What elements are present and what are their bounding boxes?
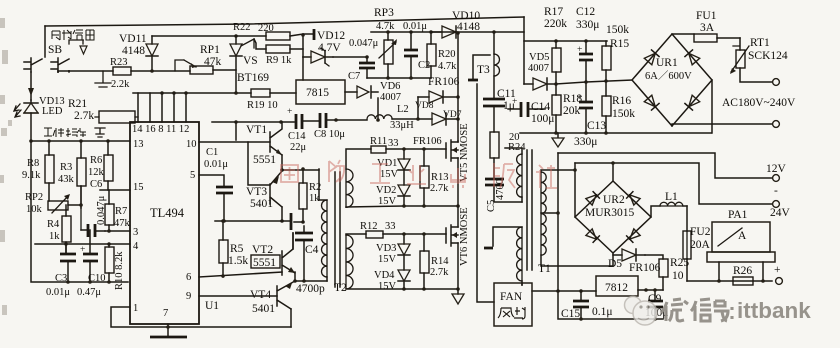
resistor R20: [427, 44, 436, 66]
transformer T2 primary: [319, 169, 327, 200]
label 风扇 fan: [498, 307, 525, 319]
svg-text:R21: R21: [68, 98, 87, 110]
svg-text:T3: T3: [477, 64, 490, 76]
svg-text:+: +: [577, 93, 582, 103]
wire UR1 right vertex down to rail: [711, 80, 713, 133]
svg-text:13: 13: [133, 139, 144, 150]
svg-text:R26: R26: [733, 265, 752, 277]
svg-text:10: 10: [672, 270, 684, 282]
red char 国: [281, 165, 298, 182]
transformer T1 secondary: [541, 172, 546, 255]
red char 版: [494, 163, 515, 188]
svg-text:12k: 12k: [88, 167, 105, 178]
resistor R10: [105, 247, 114, 273]
resistor R21 body: [99, 111, 135, 123]
zener VD2: [398, 196, 410, 206]
svg-text:L2: L2: [397, 104, 409, 115]
resistor R6: [104, 155, 113, 181]
svg-text:150k: 150k: [606, 24, 629, 36]
svg-text:R10 8.2k: R10 8.2k: [114, 251, 125, 290]
svg-text:R9 1k: R9 1k: [266, 55, 292, 66]
wire pin5/C1 to C4 tick: [215, 221, 303, 222]
wire VD10 cathode net: [456, 31, 524, 33]
wire y41 bus: [524, 40, 607, 42]
svg-text:R3: R3: [60, 162, 72, 173]
capacitor C9: [648, 301, 663, 307]
UR2 diode arm 2: [627, 192, 640, 205]
bridge UR2 diamond: [575, 181, 651, 253]
svg-text:5: 5: [190, 170, 195, 181]
ground at pin 7: [167, 324, 169, 337]
svg-text:FAN: FAN: [500, 291, 523, 303]
svg-text:5401: 5401: [252, 303, 275, 315]
wire: below pole2 down to R23 wire: [58, 71, 69, 72]
red char 社: [536, 165, 557, 188]
svg-text:VS: VS: [243, 55, 258, 67]
svg-text:R20: R20: [438, 49, 456, 60]
capacitor C8 10u: [320, 113, 326, 128]
svg-text:0.01μ: 0.01μ: [46, 287, 70, 298]
svg-text:15: 15: [133, 182, 144, 193]
T1 core: [527, 150, 532, 270]
svg-text:0.047μ: 0.047μ: [349, 38, 379, 49]
wire pin 1: [111, 307, 291, 327]
resistor R18: [552, 95, 561, 115]
inductor L2 33uH: [367, 115, 392, 119]
svg-text:4: 4: [133, 241, 139, 252]
svg-text:47k: 47k: [204, 56, 222, 68]
svg-text:C5: C5: [486, 200, 497, 212]
wire secondary rail column: [558, 153, 663, 319]
svg-text:33: 33: [388, 138, 399, 149]
capacitor C2: [404, 50, 418, 56]
T3 left terminal: [473, 55, 490, 80]
svg-text:TL494: TL494: [150, 206, 185, 220]
svg-text:15V: 15V: [378, 196, 397, 207]
bottom rail left: [31, 141, 128, 282]
svg-text:C13: C13: [587, 120, 606, 132]
svg-text:D5: D5: [608, 258, 622, 270]
svg-text:LED: LED: [42, 106, 63, 117]
wire RP3/C2 top: [371, 31, 457, 33]
resistor R23: [113, 67, 131, 75]
T2 secondary upper winding: [346, 169, 353, 207]
svg-text:7812: 7812: [605, 282, 628, 294]
svg-text:SB: SB: [48, 44, 62, 56]
svg-text:RP2: RP2: [25, 192, 43, 203]
svg-text:9: 9: [186, 291, 191, 302]
ground triangle VT6: [457, 289, 459, 294]
wire VT2 collector: [292, 233, 294, 249]
transistor VT4 5401: [277, 281, 295, 309]
regulator 7812: [596, 276, 638, 296]
svg-text:MUR3015: MUR3015: [585, 207, 634, 219]
svg-text:VD12: VD12: [317, 30, 345, 42]
UR1 diode arm 2: [685, 50, 700, 65]
resistor R19: [251, 89, 270, 97]
svg-text:330μ: 330μ: [574, 136, 597, 148]
wire R19 net: [133, 92, 296, 94]
resistor R24: [490, 132, 499, 158]
wire RP3/C2/R20 bottom rail: [367, 77, 431, 79]
wire: pole2 bottom to junction: [68, 70, 70, 72]
svg-text:4700: 4700: [495, 179, 506, 200]
svg-text:C14: C14: [531, 101, 550, 113]
svg-text:5551: 5551: [253, 257, 276, 269]
wire emitter tap to T2 primary bottom: [295, 280, 327, 282]
svg-text:0.47μ: 0.47μ: [77, 287, 101, 298]
svg-text:33: 33: [385, 221, 396, 232]
svg-text:20A: 20A: [690, 239, 711, 251]
UR2 diode arm 3: [586, 229, 599, 242]
capacitor C15: [573, 301, 589, 307]
svg-text:7815: 7815: [306, 87, 329, 99]
svg-text:2.7k: 2.7k: [430, 183, 449, 194]
capacitor C12: [579, 54, 593, 60]
svg-text:0.1μ: 0.1μ: [592, 306, 613, 318]
wire C14/C8 net: [212, 120, 367, 122]
svg-text:4148: 4148: [122, 45, 145, 57]
svg-text:5401: 5401: [250, 198, 273, 210]
svg-text:+: +: [287, 107, 292, 117]
wire pin13 net: [31, 140, 130, 142]
diode VD12 zener: [303, 51, 333, 63]
resistor R9: [266, 45, 290, 53]
wire R23 net: [58, 70, 236, 72]
wire T3 column: [493, 32, 495, 54]
diode VD8 FR106: [418, 91, 458, 103]
label 启动按钮 (start button): [52, 30, 94, 40]
ground triangle at rail: [557, 133, 559, 137]
svg-text:R13: R13: [431, 172, 449, 183]
svg-text:24V: 24V: [770, 207, 791, 219]
AC terminal 2: [773, 121, 780, 128]
red char 出: [451, 168, 465, 188]
switch actuator bracket with arrow: [69, 40, 83, 44]
svg-text:R25: R25: [670, 257, 689, 269]
zener VD4: [398, 281, 410, 289]
scanner edge smudges: [0, 18, 12, 315]
svg-text:100μ: 100μ: [531, 113, 554, 125]
svg-text:3: 3: [133, 227, 138, 238]
T2 secondary lower winding: [346, 235, 353, 289]
svg-text:1: 1: [133, 303, 138, 314]
diode D5 FR106: [613, 249, 645, 261]
wire T2 sec upper to R11: [346, 149, 371, 169]
diode VD5: [524, 78, 556, 90]
svg-text:330μ: 330μ: [576, 19, 599, 31]
svg-text:3A: 3A: [700, 22, 715, 34]
wire 7812 in: [532, 290, 596, 292]
svg-text:33μH: 33μH: [390, 120, 414, 131]
LED VD13: [24, 100, 38, 113]
wire pin3: [105, 230, 130, 232]
resistor R7: [105, 204, 114, 225]
regulator 7815: [296, 80, 345, 104]
svg-text:47k: 47k: [114, 218, 131, 229]
ground under R23 wire: [95, 71, 111, 87]
svg-text:15V: 15V: [380, 169, 399, 180]
capacitor C5: [485, 179, 504, 185]
transformer T1 primary lower: [517, 227, 522, 281]
wire VD7/VD8 anode bracket: [417, 97, 419, 119]
wire meter legs: [719, 262, 763, 281]
svg-text:15V: 15V: [378, 254, 397, 265]
UR2 diode arm 1: [586, 192, 599, 205]
svg-text:L1: L1: [665, 191, 678, 203]
wire UR2 top vertex up: [612, 163, 614, 181]
wire to 7815 input: [302, 57, 304, 80]
zener VD3: [398, 234, 410, 270]
svg-text:4148: 4148: [457, 21, 480, 33]
svg-text:RT1: RT1: [750, 37, 770, 49]
resistor R13: [420, 166, 429, 188]
+ terminal: [776, 278, 783, 285]
bridge UR1 diamond: [632, 34, 712, 126]
transistor VT1 5551: [270, 122, 282, 155]
wire 24V feed: [575, 163, 772, 204]
svg-text:C14: C14: [288, 131, 306, 142]
FAN box: [494, 283, 532, 326]
svg-text:R23: R23: [110, 57, 128, 68]
svg-text:R17: R17: [544, 6, 563, 18]
svg-text:VT2: VT2: [252, 244, 273, 256]
resistor R17: [552, 48, 561, 72]
svg-text:FR106: FR106: [413, 136, 442, 147]
wire pin9 to VT4 base: [199, 295, 277, 297]
svg-text:+: +: [577, 45, 582, 55]
svg-text:4007: 4007: [380, 92, 401, 103]
ground near 工作指示: [95, 128, 105, 137]
svg-text:R15: R15: [610, 38, 629, 50]
svg-text:C4: C4: [305, 244, 319, 256]
wire ground rail y133: [520, 132, 711, 134]
gray watermark wechat logo: [625, 297, 658, 326]
UR1 diode arm 3: [644, 95, 659, 110]
diode VD11: [146, 36, 158, 71]
24V terminal: [773, 201, 780, 208]
svg-text:10: 10: [186, 139, 197, 150]
wire 12V feed: [558, 153, 772, 178]
svg-text:ittbank: ittbank: [737, 298, 811, 323]
svg-text:RP1: RP1: [200, 44, 220, 56]
svg-text:+: +: [80, 245, 85, 255]
svg-text:R11: R11: [370, 136, 387, 147]
svg-text:43k: 43k: [58, 174, 75, 185]
resistor R12: [366, 231, 383, 238]
resistor R2: [299, 183, 307, 209]
red char 防: [329, 160, 344, 182]
svg-text:C15: C15: [561, 308, 580, 320]
svg-text:4.7k: 4.7k: [438, 61, 457, 72]
capacitor C6: [88, 224, 95, 237]
switch pole 1 (E-like contact): [24, 58, 42, 72]
svg-text:T1: T1: [538, 263, 551, 275]
12V terminal: [773, 175, 780, 182]
svg-text:BT169: BT169: [237, 72, 269, 84]
wire D5 branch: [612, 253, 614, 266]
svg-text:R22: R22: [233, 22, 251, 33]
wire VD6 out down to L2 net: [377, 98, 379, 120]
svg-text:C6: C6: [90, 179, 102, 190]
svg-text:0.01μ: 0.01μ: [403, 21, 427, 32]
svg-text:C1: C1: [206, 147, 218, 158]
fuse FU1: [672, 34, 740, 38]
potentiometer RP2: [48, 201, 68, 210]
switch pole 2: [51, 58, 69, 72]
TL494 pin risers: [138, 93, 186, 122]
resistor R22: [266, 32, 290, 40]
svg-text:VD3: VD3: [376, 243, 396, 254]
svg-text:+: +: [512, 97, 517, 107]
wire: left pole down with arrow to LED: [30, 72, 32, 100]
svg-text:1.5k: 1.5k: [228, 255, 248, 267]
svg-text:C7: C7: [348, 71, 360, 82]
svg-text:R6: R6: [90, 155, 102, 166]
wire VT5 drain column: [457, 33, 459, 141]
wire pin6: [199, 272, 282, 277]
transformer T1 primary upper: [517, 154, 522, 197]
svg-text:VD4: VD4: [374, 270, 395, 281]
resistor R14: [420, 251, 429, 273]
resistor R8: [45, 155, 54, 183]
svg-text:AC180V~240V: AC180V~240V: [722, 97, 796, 109]
svg-text:7: 7: [163, 308, 168, 319]
thyristor VS BT169: [230, 36, 242, 93]
svg-text:FU1: FU1: [696, 10, 717, 22]
MOSFET VT6: [446, 225, 458, 246]
svg-text:220: 220: [258, 23, 274, 34]
svg-text:VT3: VT3: [246, 186, 267, 198]
potentiometer RP3 body: [384, 40, 393, 64]
svg-text:R7: R7: [115, 206, 127, 217]
wire T3 return column: [477, 84, 494, 302]
AC terminal 1: [773, 79, 780, 86]
svg-text:VT6 NMOSE: VT6 NMOSE: [459, 207, 470, 266]
resistor R11: [371, 146, 386, 153]
UR2 diode arm 4: [627, 229, 640, 242]
svg-text:VT4: VT4: [250, 289, 271, 301]
capacitor C13: [579, 102, 593, 108]
resistor R16: [602, 96, 611, 116]
red char 工: [370, 164, 390, 183]
diode VD6: [345, 86, 378, 98]
fuse FU2: [686, 206, 688, 281]
wire pin10 junction to VT3 base: [248, 142, 270, 185]
IC U1 TL494 box: [130, 122, 199, 324]
svg-text:VD5: VD5: [529, 52, 549, 63]
resistor R15: [602, 46, 611, 70]
svg-text:2.7k: 2.7k: [74, 110, 94, 122]
red watermark characters: [281, 160, 557, 188]
red char 业: [407, 165, 426, 184]
svg-text:-: -: [774, 185, 778, 197]
wire VT5 gate loop return: [346, 206, 458, 207]
gray watermark text 微信号:: [661, 299, 732, 321]
svg-text:12V: 12V: [766, 163, 787, 175]
svg-text:14 16 8 11 12: 14 16 8 11 12: [132, 124, 189, 135]
wire: start box left vertical: [44, 26, 46, 57]
svg-text:VD2: VD2: [376, 185, 396, 196]
wire pin10 to VT1 base: [199, 141, 270, 143]
resistor R3: [77, 158, 86, 186]
diode VD10: [431, 26, 456, 38]
label 工作指示 (work indicator): [44, 128, 86, 137]
resistor R26: [733, 277, 753, 285]
svg-text:R16: R16: [612, 95, 631, 107]
svg-text:R8: R8: [27, 158, 39, 169]
svg-text:A: A: [738, 230, 747, 242]
svg-text:VD11: VD11: [119, 33, 147, 45]
svg-text:6: 6: [186, 272, 191, 283]
thermistor RT1: [740, 38, 773, 82]
svg-text:0.01μ: 0.01μ: [204, 159, 228, 170]
svg-text:4.7k: 4.7k: [376, 21, 395, 32]
svg-text:FR106: FR106: [428, 76, 460, 88]
wire DC bus y82: [556, 80, 632, 84]
svg-text:VT5 NMOSE: VT5 NMOSE: [459, 123, 470, 182]
svg-text:10k: 10k: [26, 204, 43, 215]
capacitor C10 electrolytic: [83, 254, 98, 261]
svg-text:R12: R12: [360, 221, 378, 232]
MOSFET VT5: [446, 140, 458, 161]
svg-text:20k: 20k: [563, 105, 581, 117]
inductor L1: [651, 206, 660, 217]
wire T1 primary lower bottom to FAN: [521, 283, 523, 285]
svg-text:FU2: FU2: [690, 226, 711, 238]
capacitor C3: [60, 254, 76, 261]
wire VT4 emitter down and left: [290, 309, 292, 327]
svg-text:FR106: FR106: [629, 262, 661, 274]
transformer T3 winding: [494, 54, 500, 76]
UR1 diode arm 1: [644, 50, 659, 65]
svg-text:C8 10μ: C8 10μ: [314, 129, 345, 140]
wire node VD11 top: [152, 35, 236, 37]
zener VD1: [398, 149, 410, 185]
potentiometer RP1: [190, 66, 213, 74]
svg-text:R14: R14: [431, 256, 449, 267]
svg-text:UR1: UR1: [656, 57, 678, 69]
capacitor C11: [483, 99, 505, 106]
resistor R4: [62, 216, 71, 242]
wire: top rail from start box to x=524: [45, 17, 524, 26]
T2 core: [335, 172, 340, 287]
svg-text:4.7V: 4.7V: [318, 42, 341, 54]
svg-text:RP3: RP3: [374, 7, 394, 19]
wire + output: [687, 280, 772, 282]
svg-text:R4: R4: [47, 219, 60, 230]
svg-text:PA1: PA1: [728, 209, 748, 221]
transistor VT2 5551: [282, 233, 295, 275]
capacitor C14 100u: [521, 102, 528, 117]
wire pin4: [35, 243, 130, 245]
wire top rail corner: [523, 17, 525, 84]
svg-text:150k: 150k: [612, 108, 635, 120]
svg-text:VD6: VD6: [380, 81, 400, 92]
capacitor C14 22u: [296, 114, 302, 129]
diode VD7: [418, 113, 458, 125]
svg-text:4700p: 4700p: [296, 283, 325, 295]
wire VT6 source return: [346, 288, 458, 290]
capacitor C7: [333, 56, 367, 58]
svg-text:22μ: 22μ: [290, 142, 307, 153]
svg-text:R5: R5: [230, 243, 244, 255]
wire 7812 out to R25 bottom: [638, 289, 663, 291]
wire VT2/VT4 emitter column: [294, 272, 296, 281]
svg-text:220k: 220k: [544, 18, 567, 30]
svg-text:+: +: [774, 264, 781, 276]
svg-text:15V: 15V: [378, 281, 397, 292]
